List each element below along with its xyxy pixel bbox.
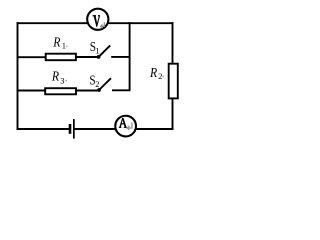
ammeter U-A (115, 116, 136, 137)
svg-text:1: 1 (95, 45, 99, 55)
label S2 (89, 72, 99, 89)
svg-text:2: 2 (158, 71, 162, 81)
label R3 (51, 67, 65, 85)
svg-text:3: 3 (60, 75, 64, 85)
voltmeter gray mark (101, 22, 105, 28)
resistor R1 (46, 54, 76, 61)
battery (69, 119, 75, 139)
resistor R2 (169, 64, 178, 99)
ammeter gray mark (127, 122, 132, 130)
label R3 tiny mark (65, 79, 67, 81)
wire branch2 right (112, 89, 131, 91)
svg-text:1: 1 (62, 41, 66, 51)
wire branch1 right (111, 56, 130, 58)
label R2 tiny mark (162, 76, 164, 78)
svg-text:R: R (51, 67, 59, 83)
voltmeter label V (93, 15, 101, 27)
wire right side (172, 22, 174, 130)
resistor R3 (45, 88, 76, 94)
wire branch2 left (17, 90, 46, 92)
switch S1 (97, 45, 111, 58)
voltmeter U-V (87, 9, 108, 30)
wire branch1 left (17, 56, 46, 58)
wire branch1 middle (75, 56, 99, 58)
switch S2 (97, 78, 111, 92)
wire bottom right segment (75, 128, 174, 130)
wire top side (17, 22, 174, 24)
svg-text:2: 2 (95, 79, 99, 89)
wire bottom left segment (17, 128, 70, 130)
svg-text:R: R (149, 64, 157, 80)
label S1 (90, 39, 100, 56)
svg-text:R: R (52, 33, 60, 49)
label R1 tiny mark (66, 45, 68, 47)
wire branch2 middle (75, 90, 99, 92)
wire inner vertical node (129, 22, 131, 90)
wire left side (17, 22, 19, 130)
label R1 (52, 33, 66, 50)
ammeter label A (119, 118, 127, 128)
label R2 (149, 64, 162, 81)
